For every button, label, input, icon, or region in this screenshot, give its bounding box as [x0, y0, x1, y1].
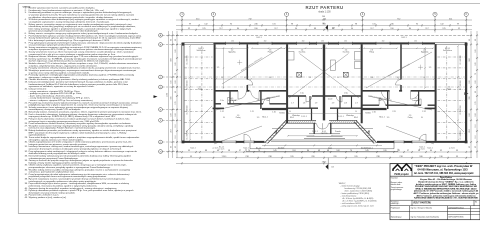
- svg-text:9x9/9x9cm: 9x9/9x9cm: [443, 50, 452, 52]
- svg-text:1.5a: 1.5a: [220, 100, 224, 102]
- svg-text:Przeds.: Przeds.: [335, 131, 342, 133]
- left elevation triangle: [154, 95, 158, 98]
- svg-text:11.: 11.: [25, 51, 28, 53]
- svg-text:90: 90: [423, 77, 425, 79]
- svg-text:mgr inz. Grzegorz Galazka: mgr inz. Grzegorz Galazka: [411, 207, 432, 209]
- svg-text:90/200: 90/200: [279, 113, 285, 115]
- notes text block UWAGI: [23, 5, 143, 199]
- svg-text:90/200: 90/200: [365, 113, 371, 115]
- entrance double door: [317, 123, 329, 129]
- svg-text:SJ-1.1: SJ-1.1: [256, 147, 261, 149]
- svg-text:24.: 24.: [25, 114, 28, 116]
- north arrow filled triangle: [325, 25, 328, 30]
- svg-text:176.1: 176.1: [221, 156, 227, 158]
- svg-text:28.: 28.: [25, 130, 28, 132]
- svg-text:±0.00: ±0.00: [328, 99, 332, 101]
- svg-text:17.: 17.: [25, 75, 28, 77]
- svg-text:Wiatrolap: Wiatrolap: [346, 114, 354, 117]
- svg-text:projektowego:: projektowego:: [391, 188, 403, 191]
- bottom dimension chains: [176, 145, 472, 165]
- materials legend text: [339, 183, 377, 208]
- roof overhang dashed line top: [176, 34, 472, 36]
- svg-text:34.: 34.: [25, 160, 28, 162]
- svg-text:O-1 90/150: O-1 90/150: [460, 106, 462, 115]
- svg-text:120: 120: [257, 117, 260, 119]
- svg-text:Taras: Taras: [198, 89, 202, 91]
- svg-text:2.9: 2.9: [332, 103, 335, 105]
- svg-text:2.11: 2.11: [392, 111, 395, 113]
- svg-text:O-1 90/150: O-1 90/150: [187, 56, 189, 65]
- svg-text:246: 246: [269, 77, 272, 79]
- svg-text:80: 80: [223, 117, 225, 119]
- south axis marker triangle: [327, 158, 329, 170]
- svg-text:246: 246: [371, 77, 374, 79]
- title block labels: [391, 177, 404, 191]
- title block bottom row text: [391, 200, 477, 218]
- svg-text:22.: 22.: [25, 107, 28, 109]
- svg-text:- prety poprzeczne, belki, lat: - prety poprzeczne, belki, laty dr. C24: [341, 204, 375, 207]
- svg-text:p. 5cm: p. 5cm: [449, 147, 455, 149]
- svg-text:150: 150: [414, 41, 417, 43]
- svg-text:SJ-1.1: SJ-1.1: [243, 148, 248, 150]
- outer wall left: [181, 43, 183, 143]
- title RZUT PARTERU: [306, 5, 344, 13]
- title block logo: [393, 165, 402, 171]
- svg-text:25.: 25.: [25, 118, 28, 120]
- svg-text:150: 150: [344, 41, 347, 43]
- svg-text:14.: 14.: [25, 63, 28, 65]
- svg-text:20.: 20.: [25, 88, 28, 90]
- title block header text: [414, 164, 474, 175]
- chimney vent symbols: [297, 72, 302, 77]
- svg-text:mgr inz. Katarzyna Jach-Kozlow: mgr inz. Katarzyna Jach-Kozlowska: [411, 215, 439, 218]
- svg-text:2.6a: 2.6a: [344, 93, 348, 95]
- svg-text:KATEGORIA OBIEKTU BUDOWLANEGO:: KATEGORIA OBIEKTU BUDOWLANEGO: XVI - BUD…: [414, 197, 478, 200]
- svg-text:SJ-1.1: SJ-1.1: [256, 37, 261, 39]
- svg-text:Sypialnia: Sypialnia: [228, 52, 235, 54]
- svg-text:98: 98: [337, 77, 339, 79]
- axis markers left (A-H): [159, 33, 181, 153]
- svg-text:16.: 16.: [25, 70, 28, 72]
- svg-text:2.8: 2.8: [344, 103, 347, 105]
- svg-text:1.8: 1.8: [303, 103, 306, 105]
- svg-text:123: 123: [331, 166, 334, 168]
- svg-text:SJ-1.1: SJ-1.1: [427, 147, 432, 149]
- svg-text:obiektu bud.:: obiektu bud.:: [391, 183, 402, 186]
- svg-text:1.9: 1.9: [315, 103, 318, 105]
- svg-text:1.10: 1.10: [272, 112, 276, 114]
- svg-text:2.10: 2.10: [372, 112, 376, 114]
- svg-text:O-1 90/150: O-1 90/150: [187, 131, 189, 140]
- svg-text:Pokoj: Pokoj: [369, 52, 374, 54]
- top dimension chains: [176, 16, 472, 31]
- svg-text:Sprawdzajacy:: Sprawdzajacy:: [391, 215, 403, 218]
- svg-text:39.: 39.: [25, 183, 28, 185]
- terrace edge lines: [250, 148, 394, 150]
- svg-text:10x16.6: 10x16.6: [278, 148, 284, 150]
- carport dash-dot roof lines: [185, 56, 213, 58]
- left dimension chains: [167, 31, 179, 158]
- svg-text:P&W projekt: P&W projekt: [394, 173, 408, 176]
- title block grid bottom: [390, 199, 480, 201]
- interior vertical walls: [214, 44, 216, 140]
- svg-text:30.: 30.: [25, 142, 28, 144]
- svg-text:Pokoj: Pokoj: [268, 52, 273, 54]
- door swing arcs: [228, 80, 427, 142]
- svg-text:p. 5cm: p. 5cm: [213, 147, 219, 149]
- svg-text:38.: 38.: [25, 179, 28, 181]
- svg-text:37.: 37.: [25, 174, 28, 176]
- svg-text:2.7: 2.7: [355, 103, 358, 105]
- svg-text:31.: 31.: [25, 146, 28, 148]
- svg-text:1.11: 1.11: [250, 111, 253, 113]
- svg-text:21.: 21.: [25, 102, 28, 104]
- svg-text:120: 120: [387, 117, 390, 119]
- svg-text:43.: 43.: [25, 197, 28, 199]
- svg-text:O-1 90/150: O-1 90/150: [460, 131, 462, 140]
- svg-text:32.: 32.: [25, 151, 28, 153]
- outer wall bottom: [182, 141, 265, 143]
- svg-text:246: 246: [322, 16, 325, 18]
- svg-text:27.: 27.: [25, 125, 28, 127]
- svg-text:90: 90: [289, 111, 291, 113]
- svg-text:98: 98: [322, 23, 324, 25]
- svg-text:O-1 90/150: O-1 90/150: [187, 81, 189, 90]
- outer wall right: [465, 42, 467, 143]
- svg-text:GeP/1134/POOK/05: GeP/1134/POOK/05: [448, 216, 463, 218]
- svg-text:O-1 90/150: O-1 90/150: [460, 56, 462, 65]
- right dimension chains: [465, 31, 479, 158]
- svg-text:GeP/0363/POOK/04: GeP/0363/POOK/04: [448, 207, 463, 209]
- svg-text:Sypialnia: Sypialnia: [421, 52, 428, 54]
- diagonal annotations: [186, 47, 464, 144]
- svg-text:SJ-1.1: SJ-1.1: [190, 147, 195, 149]
- interior dim rows: [216, 47, 248, 49]
- svg-text:1.2-1.1: 1.2-1.1: [301, 116, 307, 118]
- in-plan small dims: [187, 56, 462, 140]
- svg-text:150: 150: [231, 41, 234, 43]
- svg-text:SJ-1.1: SJ-1.1: [401, 37, 406, 39]
- svg-text:13.: 13.: [25, 58, 28, 60]
- svg-text:10x16.6: 10x16.6: [361, 148, 367, 150]
- svg-text:125: 125: [217, 67, 220, 69]
- svg-text:SD-1: SD-1: [354, 117, 358, 119]
- svg-text:150: 150: [302, 41, 305, 43]
- svg-text:150: 150: [321, 41, 324, 43]
- entrance vestibule walls and steps: [313, 123, 315, 134]
- svg-text:41.: 41.: [25, 190, 28, 192]
- svg-text:1.6a: 1.6a: [300, 93, 304, 95]
- svg-text:150: 150: [382, 41, 385, 43]
- title block frame: [390, 164, 480, 220]
- outer wall top: [182, 41, 466, 45]
- svg-text:Sk: Sk: [475, 201, 477, 203]
- svg-text:90: 90: [221, 77, 223, 79]
- room center cross marks: [237, 61, 242, 63]
- entrance recess walls: [285, 119, 316, 121]
- svg-text:Pokoj: Pokoj: [236, 117, 241, 119]
- svg-text:2.12: 2.12: [422, 111, 426, 113]
- svg-text:skala 1:100: skala 1:100: [318, 10, 331, 13]
- svg-text:98: 98: [309, 77, 311, 79]
- svg-text:SJ-1.1: SJ-1.1: [367, 147, 372, 149]
- svg-text:150: 150: [264, 41, 267, 43]
- svg-text:1.12: 1.12: [220, 111, 224, 113]
- svg-text:33.: 33.: [25, 155, 28, 157]
- svg-text:Kuchnia: Kuchnia: [299, 52, 306, 54]
- svg-text:Lazienka: Lazienka: [412, 100, 419, 102]
- svg-text:Pokoj: Pokoj: [408, 117, 413, 119]
- svg-text:tel. kom. 502 015 411, 088 604: tel. kom. 502 015 411, 088 604 484, www.…: [414, 172, 474, 175]
- svg-text:9x9/9x9cm: 9x9/9x9cm: [197, 50, 206, 52]
- svg-text:10.: 10.: [25, 47, 28, 49]
- svg-text:125: 125: [429, 67, 432, 69]
- svg-text:142: 142: [244, 77, 247, 79]
- svg-text:35.: 35.: [25, 165, 28, 167]
- svg-text:123: 123: [332, 28, 335, 30]
- svg-text:1.2-1.1: 1.2-1.1: [338, 116, 344, 118]
- svg-text:SD-1.1: SD-1.1: [262, 117, 268, 119]
- svg-text:p. 5cm: p. 5cm: [419, 149, 425, 151]
- svg-text:SD-1.1: SD-1.1: [379, 117, 385, 119]
- svg-text:142: 142: [397, 77, 400, 79]
- title block content rows: [414, 176, 480, 200]
- svg-text:p. 5cm: p. 5cm: [219, 149, 225, 151]
- svg-text:Projektowal:: Projektowal:: [391, 206, 401, 209]
- svg-text:RZUT PARTERU: RZUT PARTERU: [414, 202, 432, 205]
- axis markers top (1-6): [180, 12, 468, 32]
- svg-text:Kuchnia: Kuchnia: [343, 52, 350, 54]
- svg-text:90: 90: [355, 111, 357, 113]
- svg-text:Inwestor:: Inwestor:: [391, 177, 399, 180]
- svg-text:131: 131: [322, 20, 325, 22]
- svg-text:taras: taras: [328, 147, 332, 150]
- room labels: [190, 37, 455, 150]
- svg-text:nazwa rys.:: nazwa rys.:: [391, 202, 400, 205]
- svg-text:SD-1: SD-1: [290, 117, 294, 119]
- svg-text:O-1 90/150: O-1 90/150: [187, 106, 189, 115]
- svg-text:G: G: [160, 142, 162, 144]
- svg-text:36.: 36.: [25, 169, 28, 171]
- svg-text:Wymiary podano w [cm], rzedne: Wymiary podano w [cm], rzedne w [m].: [29, 196, 67, 199]
- svg-text:29.: 29.: [25, 137, 28, 139]
- svg-text:Taras: Taras: [447, 89, 451, 91]
- interior horizontal walls: [215, 90, 238, 92]
- svg-text:1.7: 1.7: [291, 103, 294, 105]
- svg-text:80: 80: [421, 117, 423, 119]
- svg-text:19.: 19.: [25, 82, 28, 84]
- svg-text:O-1 90/150: O-1 90/150: [460, 81, 462, 90]
- svg-text:240/200: 240/200: [321, 133, 328, 135]
- svg-text:1.2-1.1: 1.2-1.1: [312, 131, 318, 133]
